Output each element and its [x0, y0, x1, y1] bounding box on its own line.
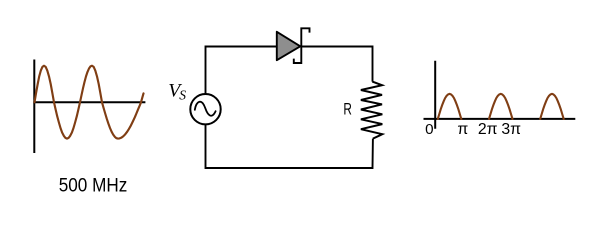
diode D1 (Schottky) anode triangle: [277, 32, 301, 60]
svg-text:500 MHz: 500 MHz: [59, 175, 128, 197]
svg-text:0: 0: [425, 121, 433, 138]
source VS circle: [190, 94, 220, 124]
source VS sine symbol: [195, 102, 216, 116]
input waveform horizontal axis: [33, 101, 145, 103]
svg-text:3π: 3π: [501, 121, 521, 138]
diode D1 cathode bar with schottky hooks: [294, 28, 310, 63]
output hump 2: [489, 94, 513, 119]
output waveform horizontal axis: [424, 118, 576, 120]
wire top-left segment: [206, 47, 278, 95]
wire top-right segment: [301, 47, 372, 82]
wire right lower segment: [206, 124, 373, 168]
svg-text:2π: 2π: [478, 121, 498, 138]
resistor R zigzag: [361, 82, 382, 139]
output hump 1: [438, 94, 462, 119]
output hump 3: [540, 94, 564, 119]
svg-text:π: π: [457, 121, 468, 138]
output waveform vertical axis: [434, 61, 436, 129]
svg-text:S: S: [179, 88, 186, 103]
svg-text:R: R: [343, 101, 352, 119]
input waveform vertical axis: [33, 60, 35, 154]
input sine wave: [35, 66, 144, 139]
